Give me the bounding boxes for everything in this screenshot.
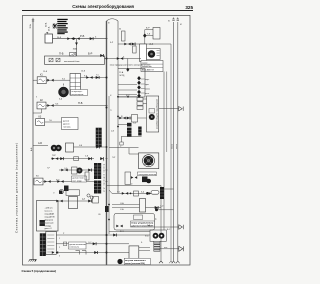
left small box mid <box>85 172 89 180</box>
svg-text:Г-О: Г-О <box>117 192 121 194</box>
svg-text:масса: масса <box>172 144 174 149</box>
connector top left bus <box>32 18 34 21</box>
wire center bus thin <box>108 96 110 234</box>
pin stack right <box>137 98 143 110</box>
wires to fan <box>109 148 139 154</box>
bottom: dark ladder E1 <box>40 233 46 256</box>
bend left y193 <box>109 190 112 193</box>
svg-text:катушки зажигания и: катушки зажигания и <box>125 260 147 262</box>
ignition coils box <box>150 230 166 241</box>
coil comp y196 <box>69 197 78 209</box>
lamp starburst <box>52 23 58 29</box>
horn circles <box>51 145 62 151</box>
svg-text:зажигания: зажигания <box>142 66 152 68</box>
connector X1 <box>67 37 73 40</box>
connector X10 <box>60 157 63 160</box>
fuse rect vertical <box>122 31 126 41</box>
connector table <box>70 74 81 96</box>
connector X5 <box>96 76 99 79</box>
node 96 <box>117 96 119 98</box>
wire K3 right <box>45 121 62 123</box>
svg-text:двигателем (ЭБУ): двигателем (ЭБУ) <box>131 225 153 227</box>
connector X7 <box>119 117 125 120</box>
connector X24 <box>94 251 97 254</box>
bottom module box <box>46 232 57 255</box>
motor M1 <box>59 84 69 98</box>
svg-text:П-Б: П-Б <box>59 52 64 56</box>
svg-text:1: 1 <box>59 238 60 240</box>
connector X6 <box>124 43 130 46</box>
wire pinstack stubs <box>143 99 147 103</box>
injector coil <box>140 199 146 213</box>
resistor dark <box>142 177 148 183</box>
connector X18 <box>56 200 62 203</box>
block inner text <box>119 71 125 77</box>
svg-text:блок управления: блок управления <box>131 222 154 225</box>
box top right narrow <box>153 28 160 40</box>
caption fan <box>137 172 157 176</box>
connector X20 <box>155 206 158 209</box>
wire right bus C <box>163 72 165 231</box>
svg-text:жгут проводов панели: жгут проводов панели <box>104 164 106 192</box>
svg-text:30: 30 <box>119 29 121 31</box>
wire y201 top <box>58 200 92 202</box>
bottom wire row1 <box>56 234 106 236</box>
node y116 <box>117 116 119 118</box>
wire battery to bus <box>53 38 107 40</box>
connector diamonds column <box>137 76 141 98</box>
sensor group <box>72 167 83 174</box>
wire table to bus <box>81 77 107 79</box>
wire row y252 right <box>107 252 130 254</box>
svg-text:К1: К1 <box>168 21 170 23</box>
svg-text:АМ1 АМ2 ST: АМ1 АМ2 ST <box>142 69 155 72</box>
node 96b <box>127 96 129 98</box>
svg-text:электровентилятор: электровентилятор <box>138 174 157 176</box>
battery terminal <box>46 32 48 34</box>
relay K2 <box>37 102 46 109</box>
plug arrow y108 <box>179 107 184 111</box>
bus cross ticks <box>105 39 107 182</box>
small box below y136 <box>120 142 123 145</box>
spark plug symbol <box>179 246 184 251</box>
sensor dot right <box>155 208 158 211</box>
svg-text:+12В пит.: +12В пит. <box>45 208 54 210</box>
dark box y123 <box>127 123 132 127</box>
dark ladder D1 <box>94 163 101 179</box>
fuse F1 on top <box>70 53 77 57</box>
svg-text:15 А: 15 А <box>47 26 50 31</box>
fan box <box>139 153 159 169</box>
wire y35 <box>145 35 153 37</box>
wire row y243 right <box>107 243 130 245</box>
wire row y231.5 <box>109 231 150 233</box>
svg-text:П-Б: П-Б <box>78 101 83 105</box>
box y193 <box>134 191 139 196</box>
wire K2 loop <box>33 109 42 113</box>
svg-text:выс.: выс. <box>164 247 168 249</box>
wires in block <box>118 85 137 95</box>
module box bottom right <box>129 246 139 262</box>
ground right D <box>169 261 173 263</box>
ECU box <box>37 201 59 232</box>
relay K3 <box>36 119 45 126</box>
harness arc top <box>107 19 119 21</box>
ECU dark pair <box>40 220 45 226</box>
connector X15 <box>44 180 50 183</box>
svg-text:П-Р: П-Р <box>52 155 56 157</box>
coil donut 1 <box>153 233 159 239</box>
svg-text:уровня: уровня <box>63 124 69 126</box>
svg-text:лямбда: лямбда <box>45 226 53 228</box>
wire y44 row <box>118 43 171 45</box>
svg-text:7,5: 7,5 <box>96 75 99 77</box>
svg-text:Б-Р: Б-Р <box>146 28 150 30</box>
box y115 <box>132 115 138 123</box>
box right y196 <box>93 197 99 204</box>
wire row y170 <box>59 169 94 171</box>
vertical drop x161 <box>160 186 162 262</box>
connector X6b <box>132 43 135 46</box>
svg-text:регулятором: регулятором <box>72 94 84 96</box>
connector X9 <box>52 157 58 160</box>
svg-text:черн: черн <box>145 79 149 81</box>
wire y227 right <box>155 226 179 228</box>
wire y210 <box>158 209 174 211</box>
svg-text:Схема 5 (продолжение): Схема 5 (продолжение) <box>22 269 57 273</box>
small dark box left <box>64 186 69 192</box>
relay flasher <box>34 178 43 185</box>
wire center bus <box>106 21 108 265</box>
label box row2 <box>63 242 67 246</box>
small box below wire <box>133 46 137 53</box>
svg-text:охл. жидк.: охл. жидк. <box>73 180 83 182</box>
node bus 107 <box>106 107 108 109</box>
wire coil right <box>146 207 162 209</box>
node bus y243 <box>106 243 108 245</box>
fuse row158 <box>74 157 79 161</box>
bus bottom labels <box>172 144 178 149</box>
svg-text:30 А: 30 А <box>29 24 32 29</box>
svg-text:топлива: топлива <box>63 127 71 129</box>
ground left bus <box>29 257 37 262</box>
legend text column <box>45 22 51 31</box>
svg-text:коленвала: коленвала <box>69 247 80 249</box>
svg-text:30 А: 30 А <box>45 22 48 27</box>
stub below y136 <box>121 137 123 142</box>
wire coil lines <box>112 205 140 208</box>
small circles below ladder <box>87 194 94 199</box>
wire row y124 <box>118 123 127 125</box>
stub wires diamonds <box>141 79 145 93</box>
legend block <box>57 19 67 34</box>
connector X22 <box>93 242 96 245</box>
connector X25 <box>113 234 116 237</box>
connector X7b <box>127 117 130 120</box>
connector X13 <box>88 169 91 172</box>
svg-text:форсунки: форсунки <box>45 219 53 222</box>
dark strip A <box>127 128 132 137</box>
tall box left of fan <box>125 172 131 184</box>
wire right bus B <box>177 22 179 261</box>
wire K2 to bus <box>46 105 107 107</box>
wire y118 to cluster <box>138 117 147 119</box>
left bits y191 <box>59 190 80 196</box>
svg-text:комбинация приборов: комбинация приборов <box>156 99 158 129</box>
dark strip B <box>138 127 141 136</box>
svg-text:Ж: Ж <box>108 23 110 25</box>
node bus y219 <box>108 219 110 221</box>
capsule component <box>151 191 159 195</box>
svg-text:3: 3 <box>59 256 60 258</box>
node y147 <box>106 146 108 148</box>
wire row y158.6 <box>51 158 94 160</box>
gauge in cluster <box>149 109 155 121</box>
extra tiny labels <box>36 21 182 258</box>
connector X17 <box>122 192 128 195</box>
connector ladder C1 <box>96 128 102 148</box>
wire fusebox to block <box>107 58 142 60</box>
svg-text:вход ДТОЖ: вход ДТОЖ <box>45 217 55 219</box>
wire right bus D <box>170 44 172 261</box>
dark ladder D2 <box>94 181 101 194</box>
svg-text:диагн. К: диагн. К <box>45 228 53 230</box>
box horn right <box>66 143 74 152</box>
ignition caption table <box>141 61 163 72</box>
svg-text:массa сх.: массa сх. <box>45 211 54 213</box>
wire row y235 right <box>107 234 151 236</box>
connector X11 <box>88 157 91 160</box>
wire bottom y136 <box>121 136 142 138</box>
connector X14 <box>57 180 63 183</box>
ignition box tall <box>140 44 147 62</box>
circle below <box>59 189 64 194</box>
wire row y193.4 <box>112 192 151 194</box>
wire K1 to table <box>46 79 70 81</box>
node bus y204 <box>108 204 110 206</box>
diamond connector <box>143 33 146 38</box>
battery GB1 <box>45 34 53 43</box>
connector K1 out <box>47 79 53 82</box>
connector dark round <box>146 192 151 195</box>
svg-text:датчик темп.: датчик темп. <box>73 178 85 180</box>
wire left bus <box>32 20 34 257</box>
dark pin strip right <box>160 187 164 199</box>
wire horn row <box>33 145 48 147</box>
svg-text:желт: желт <box>145 93 149 95</box>
coil core stack <box>154 241 160 251</box>
fuse box main <box>45 56 105 64</box>
wire coil left labels <box>120 203 124 211</box>
connector top bus B <box>177 18 179 21</box>
caption M1 <box>71 90 88 96</box>
svg-text:монтажный блок: монтажный блок <box>64 60 80 63</box>
svg-text:зелен: зелен <box>145 89 150 91</box>
dark sq on bus <box>105 206 109 212</box>
connector fusebox to bus <box>100 54 103 57</box>
connector X11b <box>100 157 103 160</box>
wire harness line <box>117 21 119 193</box>
node bus y235 <box>106 234 108 236</box>
wire right bus C2 <box>166 72 168 153</box>
ignition switch dark <box>147 49 161 60</box>
labels right of strip <box>145 79 150 95</box>
wire diamond up <box>144 30 146 44</box>
caption row180 <box>72 176 87 182</box>
wire top right row <box>118 96 137 98</box>
wire cluster out <box>159 108 179 110</box>
connector X4 <box>86 76 92 79</box>
top right: wire y29 <box>145 29 153 31</box>
fan motor <box>143 155 155 167</box>
svg-text:вход ДПДЗ: вход ДПДЗ <box>45 214 55 216</box>
ground right B <box>176 261 180 263</box>
node bus y252 <box>106 252 108 254</box>
wire drop to fusebox <box>76 39 78 56</box>
diamond block top <box>126 68 129 72</box>
wire fusebox right link <box>105 58 107 60</box>
wire flasher right <box>43 181 94 183</box>
coil donut 2 <box>159 233 165 239</box>
svg-text:ЭСУД: ЭСУД <box>119 75 125 77</box>
svg-text:датчик положения: датчик положения <box>69 244 86 246</box>
ECU pin list <box>45 208 55 231</box>
connector X12 <box>61 169 67 172</box>
relay K1 <box>37 77 46 84</box>
connector X2 <box>73 37 79 40</box>
wire row y117 <box>118 117 132 119</box>
striped caption <box>131 221 155 227</box>
caption row2 <box>69 242 87 249</box>
comp row3 <box>76 251 87 255</box>
module out wires <box>139 248 150 251</box>
wire right bus A <box>173 22 175 261</box>
svg-text:датчик: датчик <box>63 121 69 123</box>
node fusebox bus <box>106 58 108 60</box>
node y193 <box>130 193 132 195</box>
svg-text:С-Б: С-Б <box>120 209 124 211</box>
svg-text:Б-Р: Б-Р <box>88 52 93 56</box>
connector X23 <box>52 251 58 254</box>
main relay block <box>118 69 145 98</box>
diagram frame <box>23 15 191 265</box>
module inner rows <box>47 235 54 252</box>
svg-text:Система управления двигателем: Система управления двигателем (продолжен… <box>15 143 19 233</box>
bottom wire row3 <box>56 252 106 254</box>
bottom wire row2 <box>56 243 106 245</box>
connector top bus A <box>172 18 174 21</box>
connector X8 <box>96 146 99 149</box>
svg-text:325: 325 <box>185 5 193 10</box>
svg-text:2: 2 <box>59 247 60 249</box>
instrument cluster box <box>147 96 159 132</box>
wire K1 stub <box>33 79 37 81</box>
wire coil to plug <box>160 248 179 250</box>
ground right A <box>172 261 176 263</box>
svg-text:Р-Б: Р-Б <box>80 34 85 38</box>
connector X21 <box>116 225 122 228</box>
connector K2 out <box>47 104 53 107</box>
fuses inside box <box>49 58 60 62</box>
svg-text:зажигание: зажигание <box>45 223 54 225</box>
big rounded box bottom middle <box>114 214 155 231</box>
wire box to bus <box>74 146 107 148</box>
inner caption box <box>134 215 143 220</box>
svg-text:Схемы электрооборудования: Схемы электрооборудования <box>72 4 134 9</box>
svg-text:Ж: Ж <box>121 116 123 118</box>
plug arrow y227 <box>179 225 184 229</box>
connector X16 <box>131 176 137 179</box>
wire diamond drop <box>127 59 129 68</box>
caption strip long <box>110 63 151 66</box>
connector X3 <box>90 37 93 40</box>
svg-text:свечи (система DIS): свечи (система DIS) <box>125 263 145 265</box>
circle comp <box>146 179 151 184</box>
ground x161 <box>159 261 163 263</box>
box sensor caption <box>62 118 79 130</box>
wire row y185.5 <box>107 185 162 187</box>
svg-text:30А: 30А <box>73 48 77 51</box>
dark circle caption <box>117 259 122 264</box>
scattered wire labels <box>49 36 168 249</box>
svg-text:масса: масса <box>176 144 178 149</box>
connector drop arrow <box>75 43 78 46</box>
svg-text:крас: крас <box>145 84 149 86</box>
wire strip to bus <box>164 188 174 190</box>
node table bus <box>106 77 108 79</box>
header rule <box>22 10 193 11</box>
svg-text:2 А: 2 А <box>150 43 154 46</box>
svg-text:А-Б: А-Б <box>38 142 42 145</box>
connector fb-block <box>117 57 123 60</box>
connector X19 <box>88 200 91 203</box>
node y126 <box>117 126 119 128</box>
caption bottom <box>124 258 150 265</box>
svg-text:блок предохранителей в моторно: блок предохранителей в моторном отсеке <box>110 63 151 66</box>
